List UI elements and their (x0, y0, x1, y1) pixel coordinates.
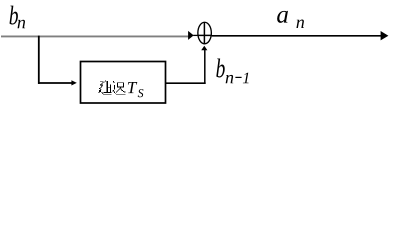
node b_n: input label (10, 6, 26, 29)
wire: arrowhead into delay box (71, 80, 76, 85)
wire: branch vertical down at x=39 (38, 36, 40, 84)
summing junction A1: circle (198, 22, 212, 44)
label: b_n-1 feedback (216, 58, 248, 83)
adder plus sign horizontal (197, 34, 212, 36)
wire: from delay box right edge to under adder (166, 82, 206, 84)
label: 迟 (delay char 2) drawn as pixel rects (112, 81, 125, 95)
wire: branch horizontal into delay box (38, 82, 72, 84)
wire: vertical up into adder (204, 50, 206, 83)
wire: main gray input line from b_n to adder (1, 35, 189, 37)
wire: arrowhead up into adder bottom (201, 46, 207, 51)
label: minus sign of n-1 subscript (235, 76, 241, 78)
wire: output arrowhead (381, 31, 389, 40)
label: T_S in delay box (128, 82, 144, 97)
delay element D1: box 延迟 Ts (81, 62, 166, 104)
adder plus sign vertical (203, 22, 205, 44)
wire: output line from adder to right arrow (212, 35, 383, 37)
label: 延 (delay char 1) drawn as pixel rects (99, 81, 112, 95)
wire: arrowhead into adder left (188, 31, 194, 40)
label: a_n output (277, 11, 304, 28)
